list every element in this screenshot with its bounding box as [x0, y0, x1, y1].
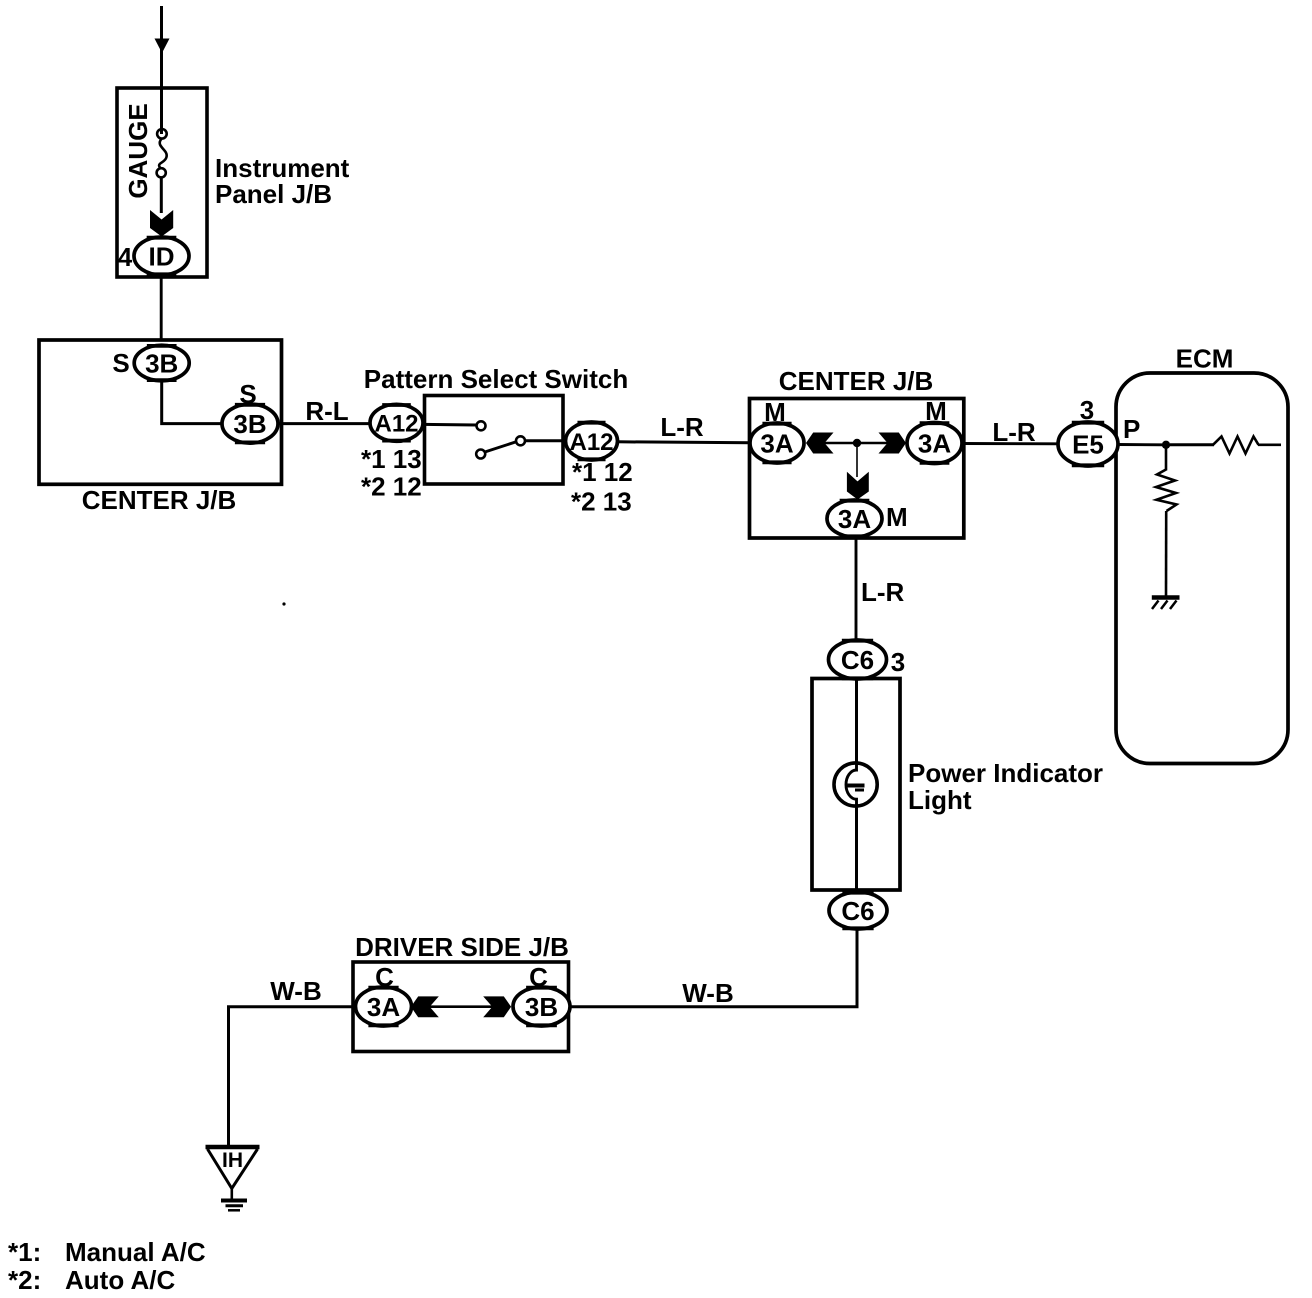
svg-text:L-R: L-R — [992, 417, 1036, 447]
svg-text:3B: 3B — [145, 349, 178, 379]
fuse GAUGE (circle, S-curve, circle) — [157, 129, 167, 177]
ECM box — [1116, 373, 1288, 764]
connector 3A (pin M, left) — [750, 423, 804, 463]
svg-text:CENTER J/B: CENTER J/B — [82, 485, 237, 515]
svg-text:C: C — [529, 962, 548, 992]
wire triangle to ground — [231, 1188, 234, 1199]
wire resistor to ECM edge — [1258, 443, 1281, 446]
Instrument Panel J/B box — [117, 88, 207, 277]
ground connector IH (triangle) — [206, 1145, 260, 1150]
svg-text:M: M — [764, 397, 786, 427]
svg-text:ECM: ECM — [1176, 344, 1234, 374]
connector 3A (pin M, right) — [907, 423, 962, 464]
connector 3A (pin C, left) — [356, 987, 412, 1026]
wire out of switch — [525, 439, 566, 442]
svg-text:S: S — [239, 379, 256, 409]
svg-text:L-R: L-R — [660, 412, 704, 442]
switch contact (fixed, top) — [477, 421, 486, 430]
bus arrow left — [806, 433, 834, 454]
svg-text:Pattern Select Switch: Pattern Select Switch — [364, 364, 628, 394]
svg-text:*1 13: *1 13 — [361, 444, 422, 474]
svg-text:GAUGE: GAUGE — [123, 103, 153, 198]
wire 3B to 3B inside Center J/B — [162, 381, 222, 424]
svg-text:*1:: *1: — [8, 1237, 41, 1267]
svg-text:ID: ID — [149, 242, 175, 272]
ground (ECM internal) — [1152, 595, 1180, 600]
wire 3A down to C6 — [855, 537, 858, 641]
svg-text:Light: Light — [908, 785, 972, 815]
wire from power source (top vertical feed) — [160, 6, 163, 134]
scan speck — [282, 602, 285, 605]
svg-text:Auto A/C: Auto A/C — [65, 1265, 175, 1295]
wire into switch — [423, 423, 477, 427]
svg-text:L-R: L-R — [861, 577, 905, 607]
wire junction to resistor — [1170, 443, 1214, 446]
bus arrow right — [483, 996, 511, 1017]
ground symbol — [221, 1199, 247, 1203]
wire from fuse to flow arrow — [160, 177, 163, 213]
svg-text:4: 4 — [118, 242, 133, 272]
connector E5 — [1058, 422, 1118, 466]
svg-text:DRIVER SIDE J/B: DRIVER SIDE J/B — [355, 932, 569, 962]
Driver Side J/B box — [353, 962, 569, 1052]
wire W-B left to ground — [229, 1007, 354, 1147]
svg-text:*2 12: *2 12 — [361, 472, 422, 502]
bulb filament — [848, 784, 865, 788]
svg-text:E5: E5 — [1072, 430, 1104, 460]
svg-text:3B: 3B — [525, 992, 558, 1022]
connector C6 (top, pin 3) — [829, 640, 887, 679]
svg-text:C6: C6 — [841, 645, 874, 675]
wire bulb to C6 — [855, 804, 858, 893]
wire junction down — [1165, 448, 1168, 471]
bus wire — [429, 1005, 493, 1008]
svg-text:Manual A/C: Manual A/C — [65, 1237, 206, 1267]
arrowhead on feed wire — [155, 39, 170, 54]
svg-text:3A: 3A — [918, 429, 951, 459]
svg-text:P: P — [1123, 414, 1140, 444]
connector A12 (right of switch) — [566, 422, 618, 460]
flow arrow down to 3A — [847, 472, 869, 500]
Power Indicator Light box — [812, 679, 900, 891]
svg-text:Panel J/B: Panel J/B — [215, 179, 332, 209]
Center J/B box (right) — [750, 399, 964, 539]
svg-text:M: M — [925, 396, 947, 426]
connector 3B (pin C, right) — [513, 987, 570, 1026]
connector A12 (left of switch) — [370, 404, 423, 441]
switch contact (pole, lower) — [476, 450, 485, 459]
junction node — [853, 439, 861, 447]
wire L-R Center J/B to ECM — [962, 442, 1059, 445]
flow arrow into connector ID — [150, 210, 173, 237]
svg-text:*1 12: *1 12 — [572, 457, 633, 487]
svg-text:CENTER J/B: CENTER J/B — [779, 366, 934, 396]
svg-text:3B: 3B — [233, 409, 266, 439]
resistor (horizontal, pull-up) — [1213, 437, 1259, 454]
svg-text:Power Indicator: Power Indicator — [908, 758, 1103, 788]
wire resistor to ground — [1165, 511, 1168, 597]
wire E5 into ECM — [1118, 443, 1162, 446]
svg-text:W-B: W-B — [682, 978, 733, 1008]
switch lever — [485, 442, 517, 453]
wire L-R switch to Center J/B — [618, 442, 752, 443]
svg-text:IH: IH — [222, 1149, 243, 1172]
svg-text:S: S — [112, 348, 129, 378]
bus wire — [824, 442, 888, 445]
svg-text:*2 13: *2 13 — [571, 487, 632, 517]
svg-text:3A: 3A — [838, 504, 871, 534]
svg-text:3A: 3A — [760, 429, 793, 459]
switch lever end contact — [516, 436, 525, 445]
wire C6 down and left to Driver Side J/B — [570, 929, 857, 1007]
svg-text:W-B: W-B — [270, 976, 321, 1006]
indicator bulb — [834, 763, 877, 806]
svg-text:A12: A12 — [374, 411, 418, 438]
junction node — [1162, 441, 1170, 449]
Center J/B box (left) — [39, 340, 282, 484]
svg-text:3: 3 — [891, 647, 905, 677]
svg-text:3A: 3A — [367, 992, 400, 1022]
svg-text:*2:: *2: — [8, 1265, 41, 1295]
svg-text:R-L: R-L — [305, 396, 348, 426]
connector C6 (bottom) — [829, 892, 887, 929]
connector 3A (pin M, bottom) — [827, 500, 882, 537]
connector ID — [134, 237, 189, 275]
svg-text:M: M — [886, 502, 908, 532]
svg-text:C6: C6 — [841, 896, 874, 926]
bus arrow left — [411, 996, 439, 1017]
Pattern Select Switch box — [425, 396, 564, 485]
svg-text:C: C — [375, 962, 394, 992]
wire ID to Center J/B — [160, 275, 163, 341]
wire junction to flow arrow — [856, 447, 858, 477]
wire C6 to bulb — [855, 679, 858, 765]
resistor (vertical) — [1156, 470, 1177, 512]
bus arrow right — [879, 433, 907, 454]
connector 3B (pin S, right) — [222, 404, 278, 443]
wire R-L from Center J/B to Pattern Select Switch — [278, 422, 371, 425]
svg-text:A12: A12 — [569, 429, 613, 456]
connector 3B (pin S, top) — [134, 345, 189, 381]
